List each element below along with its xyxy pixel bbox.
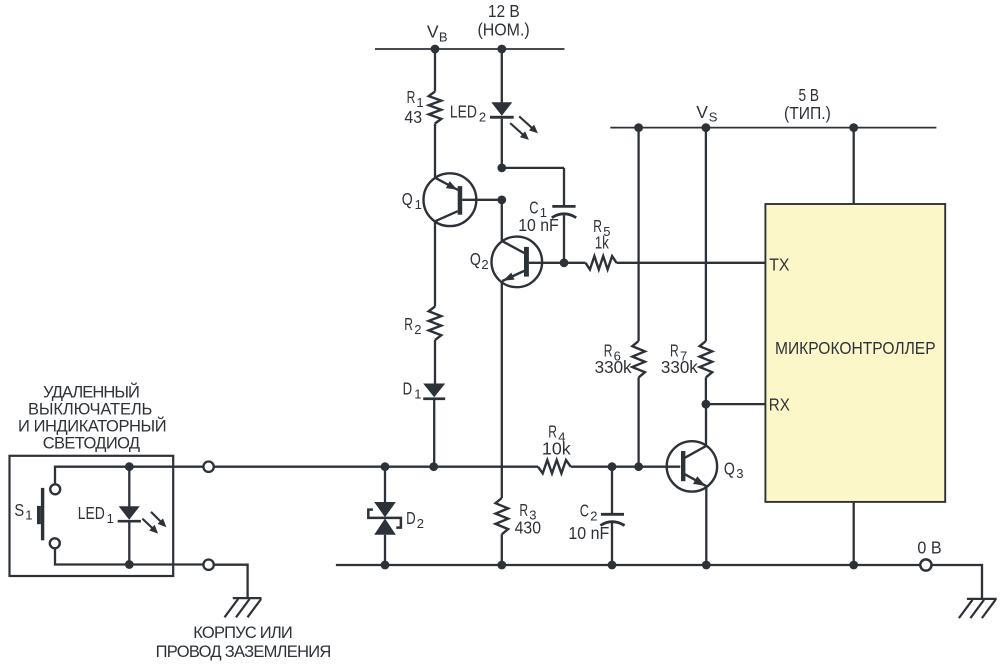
transistor Q2 base bar (524, 247, 529, 277)
svg-text:МИКРОКОНТРОЛЛЕР: МИКРОКОНТРОЛЛЕР (775, 338, 936, 358)
wire C2 node to R6 node (612, 466, 639, 468)
TVS diode D2 bottom triangle (374, 519, 396, 535)
svg-text:330k: 330k (595, 357, 632, 377)
label КОРПУС ИЛИ ПРОВОД ЗАЗЕМЛЕНИЯ (156, 624, 332, 661)
terminal top open circle (203, 462, 213, 472)
svg-text:2: 2 (590, 509, 597, 524)
svg-text:S: S (14, 500, 24, 520)
svg-text:2: 2 (481, 257, 488, 272)
wire Q1 base node to Q2 collector (501, 200, 503, 242)
wire box top-left corner to S1 (55, 467, 173, 484)
box remote switch enclosure (10, 456, 174, 576)
wire C2 bottom lead (611, 523, 613, 565)
svg-text:КОРПУС ИЛИ: КОРПУС ИЛИ (193, 624, 292, 642)
wire V_B 12V supply rail (375, 48, 565, 50)
transistor Q3 collector lead (685, 446, 706, 458)
transistor Q2 body (492, 237, 543, 288)
LED LED2 light arrow upper (519, 116, 532, 127)
wire C2 top lead (611, 467, 613, 513)
LED LED1 light arrow upper (151, 512, 161, 522)
svg-text:LED: LED (450, 101, 477, 121)
svg-text:D: D (403, 378, 413, 398)
wire R6 node to Q3 base (639, 466, 681, 468)
wire V_S 5V supply rail (610, 127, 936, 129)
wire Q1 collector to R2 (434, 221, 436, 307)
wire top terminal to main line (214, 466, 385, 468)
svg-text:1: 1 (25, 508, 32, 523)
svg-text:0 В: 0 В (917, 537, 941, 557)
transistor Q1 collector lead (435, 211, 458, 221)
wire Q3 emitter to 0V rail (705, 487, 707, 566)
node D2 top junction (381, 462, 390, 471)
node LED1 anode (125, 462, 134, 471)
wire 0V rail (336, 564, 921, 566)
wire 5V rail to R7 (705, 128, 707, 341)
capacitor C2 top plate (601, 513, 624, 516)
svg-text:(ТИП.): (ТИП.) (784, 103, 831, 123)
node 0V R3 (497, 561, 506, 570)
LED LED2 triangle (491, 102, 512, 116)
node D1 cathode junction (429, 462, 438, 471)
svg-text:3: 3 (736, 466, 743, 481)
svg-text:R: R (407, 87, 416, 107)
svg-text:ВЫКЛЮЧАТЕЛЬ: ВЫКЛЮЧАТЕЛЬ (28, 401, 152, 419)
wire 12V rail to LED2 (501, 49, 503, 103)
svg-text:1: 1 (107, 511, 114, 526)
TVS diode D2 bar with hooks (368, 510, 401, 528)
wire C1 top lead (563, 168, 565, 205)
transistor Q3 base bar (681, 451, 685, 481)
node Q2 base C1 R5 junction (560, 258, 569, 267)
switch S1 bottom contact (50, 538, 60, 548)
wire D2 to 0V rail (384, 535, 386, 565)
node 0V Q3 emitter (702, 561, 711, 570)
svg-text:(НОМ.): (НОМ.) (477, 20, 529, 40)
wire 0V terminal to right ground (932, 565, 982, 599)
svg-text:1: 1 (414, 387, 421, 402)
node R6 Q3 base junction (634, 462, 643, 471)
wire R6 to Q3 base node (637, 377, 639, 466)
wire 5V rail to R6 (637, 128, 639, 341)
wire C1 bottom lead (563, 215, 565, 263)
svg-text:УДАЛЕННЫЙ: УДАЛЕННЫЙ (43, 383, 140, 402)
wire LED1 anode lead (128, 467, 130, 507)
svg-text:S: S (709, 110, 718, 125)
svg-text:Q: Q (470, 249, 481, 269)
transistor Q3 emitter arrow NPN (693, 476, 706, 486)
LED LED1 light arrow lower (142, 519, 152, 528)
node Q1 base junction (497, 196, 506, 205)
resistor R6 (632, 341, 645, 377)
resistor R3 (496, 498, 509, 534)
svg-text:10k: 10k (542, 439, 571, 459)
svg-text:430: 430 (515, 518, 542, 538)
wire node to C1 horizontal (502, 167, 564, 169)
svg-text:10 nF: 10 nF (518, 215, 559, 235)
wire D1 to main line (433, 400, 435, 467)
wire R5 to TX (617, 262, 766, 264)
wire main line D1 to R4 (434, 466, 538, 468)
capacitor C1 top plate (552, 205, 575, 208)
resistor R7 (700, 341, 713, 377)
svg-text:C: C (580, 501, 589, 521)
chassis ground symbol left (225, 598, 262, 617)
LED LED2 cathode bar (490, 116, 514, 119)
resistor R4 (538, 460, 571, 473)
svg-text:1k: 1k (595, 232, 609, 252)
svg-text:СВЕТОДИОД: СВЕТОДИОД (43, 435, 140, 453)
svg-text:10 nF: 10 nF (568, 523, 609, 543)
svg-text:2: 2 (414, 322, 421, 337)
node 0V C2 (608, 561, 617, 570)
wire LED1 cathode lead (128, 523, 130, 565)
LED LED1 triangle (119, 506, 140, 520)
switch S1 actuator bar (41, 488, 44, 540)
wire R3 to 0V rail (501, 534, 503, 565)
wire 5V rail to microcontroller top (853, 128, 855, 204)
diode D1 triangle (423, 384, 445, 398)
transistor Q2 emitter lead (502, 271, 524, 281)
svg-text:1: 1 (415, 197, 422, 212)
svg-text:LED: LED (78, 503, 105, 523)
node LED1 cathode (125, 560, 134, 569)
svg-text:5 В: 5 В (799, 85, 820, 105)
wire Q3 collector to RX node (705, 404, 707, 446)
wire box edge to top terminal (173, 466, 203, 468)
svg-text:R: R (404, 314, 413, 334)
terminal bottom open circle (203, 560, 213, 570)
wire main line to D2 (384, 467, 386, 503)
diode D1 cathode bar (423, 397, 445, 400)
svg-text:Q: Q (724, 458, 735, 478)
resistor R5 (586, 256, 617, 269)
switch S1 top contact (50, 484, 60, 494)
svg-text:ПРОВОД ЗАЗЕМЛЕНИЯ: ПРОВОД ЗАЗЕМЛЕНИЯ (156, 643, 332, 661)
svg-text:Q: Q (402, 189, 413, 209)
node 5V rail microcontroller (849, 123, 858, 132)
IC microcontroller box (765, 204, 945, 502)
capacitor C1 bottom plate curved (552, 214, 576, 218)
wire main line D2 to D1 (385, 466, 434, 468)
svg-text:И ИНДИКАТОРНЫЙ: И ИНДИКАТОРНЫЙ (18, 417, 167, 436)
transistor Q2 emitter arrow NPN (503, 273, 515, 281)
transistor Q3 emitter lead (685, 474, 706, 486)
svg-text:V: V (696, 102, 708, 122)
svg-text:2: 2 (479, 109, 486, 124)
wire node to R5 (564, 262, 586, 264)
capacitor C2 bottom plate curved (600, 522, 624, 526)
TVS diode D2 top triangle (374, 502, 396, 517)
transistor Q3 body (667, 441, 717, 491)
svg-text:RX: RX (769, 394, 790, 414)
wire LED2 to node (501, 119, 503, 168)
LED LED2 light arrow lower (510, 123, 523, 134)
node RX R7 Q3 collector junction (702, 400, 711, 409)
wire RX node to microcontroller (706, 403, 766, 405)
svg-text:2: 2 (417, 516, 424, 531)
svg-text:V: V (427, 21, 439, 41)
node 12V rail LED2 junction (497, 45, 506, 54)
node 5V rail R6 (634, 123, 643, 132)
wire R2 to D1 (434, 340, 436, 384)
transistor Q2 collector lead (502, 241, 524, 253)
wire R4 to C2 node (571, 466, 612, 468)
chassis ground symbol right (959, 599, 997, 618)
wire R7 to RX node (705, 377, 707, 404)
label remote switch title (18, 383, 167, 453)
svg-text:B: B (439, 29, 448, 44)
wire 12V rail to R1 (434, 49, 436, 92)
wire R1 to Q1 emitter (434, 124, 436, 179)
node 0V D2 (381, 561, 390, 570)
node V_B rail R1 junction (431, 45, 440, 54)
svg-text:43: 43 (404, 107, 422, 127)
svg-text:TX: TX (769, 254, 789, 274)
LED LED1 cathode bar (118, 520, 141, 523)
svg-text:12 В: 12 В (488, 1, 520, 21)
wire bottom terminal to chassis ground (214, 565, 248, 598)
wire box bottom-left corner from S1 (55, 549, 173, 565)
resistor R1 (429, 92, 442, 124)
wire Q2 base lead (529, 262, 564, 264)
terminal 0V open circle (920, 559, 931, 570)
transistor Q1 body (424, 173, 477, 226)
wire box edge to bottom terminal (173, 563, 203, 565)
switch S1 actuator button (37, 506, 41, 524)
wire Q1 base lead (462, 199, 502, 201)
svg-text:D: D (406, 508, 416, 528)
node 0V microcontroller (849, 561, 858, 570)
node 5V rail R7 (702, 123, 711, 132)
node LED2 cathode C1 branch (497, 164, 506, 173)
transistor Q1 emitter lead (435, 178, 458, 190)
wire Q2 emitter down (501, 281, 503, 498)
wire microcontroller bottom to 0V rail (853, 502, 855, 565)
transistor Q1 base bar (458, 186, 463, 215)
svg-text:330k: 330k (661, 357, 698, 377)
node C2 top junction (608, 462, 617, 471)
resistor R2 (429, 307, 442, 341)
transistor Q1 emitter arrow PNP (446, 181, 457, 190)
